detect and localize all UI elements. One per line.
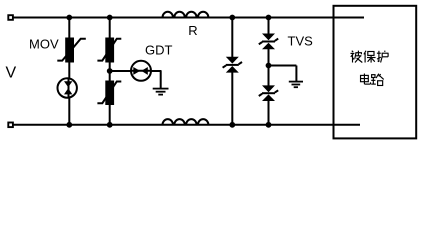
svg-text:GDT: GDT xyxy=(145,43,173,58)
svg-text:MOV: MOV xyxy=(29,37,59,52)
svg-text:V: V xyxy=(6,64,17,81)
svg-text:TVS: TVS xyxy=(288,34,314,49)
svg-text:R: R xyxy=(188,23,197,38)
